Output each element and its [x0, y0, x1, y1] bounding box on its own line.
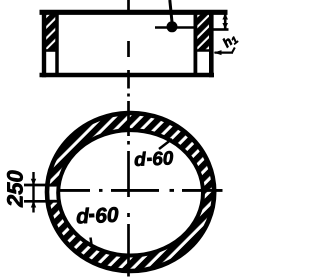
h1 leader shelf arrow [215, 51, 234, 53]
hatch bottom line right wall [194, 49, 211, 52]
h1 arrow up [222, 13, 228, 19]
vertical center line of top view (dash-dot) [127, 0, 130, 97]
250 label [7, 171, 23, 208]
d-60 upper label [134, 152, 146, 167]
250 dimension lower extension line [24, 200, 60, 203]
h1 label [221, 33, 238, 50]
hatch bottom line left wall [43, 49, 59, 52]
250 dimension line [32, 172, 34, 213]
ring band hatching (bottom view) [47, 113, 214, 271]
250 dimension upper extension line [24, 184, 60, 187]
marking point leader line from top [170, 0, 172, 22]
h1 arrow down [222, 23, 228, 29]
left inner edge (top view) [55, 13, 59, 76]
inner circle of ring [58, 130, 203, 255]
d-60 lower label [76, 208, 89, 224]
left outer edge (top view) [42, 10, 46, 77]
bottom edge of ring section (top view) [40, 73, 215, 77]
d-60 lower leader [91, 238, 93, 249]
top edge of ring section (top view) [40, 10, 228, 15]
outer circle of ring [47, 113, 214, 271]
right outer edge (top view) [209, 10, 214, 77]
horizontal center line of ring view (dash-dot) [57, 189, 223, 192]
hatch interruption at 250 dimension [43, 187, 60, 200]
250 arrow upper (pointing down) [31, 179, 36, 186]
250 arrow lower (pointing up) [31, 201, 36, 208]
h1 dimension extension line (right, lower) [214, 28, 229, 31]
right inner edge (top view) [193, 13, 197, 76]
marking point dot [167, 21, 178, 32]
level line through marking point [155, 26, 194, 28]
d-60 upper leader [159, 139, 172, 149]
h1 dimension line [224, 13, 227, 30]
right wall section hatch (top view) [197, 13, 209, 51]
vertical center line of ring view (dash-dot) [127, 101, 130, 277]
left wall section hatch (top view) [46, 13, 56, 51]
